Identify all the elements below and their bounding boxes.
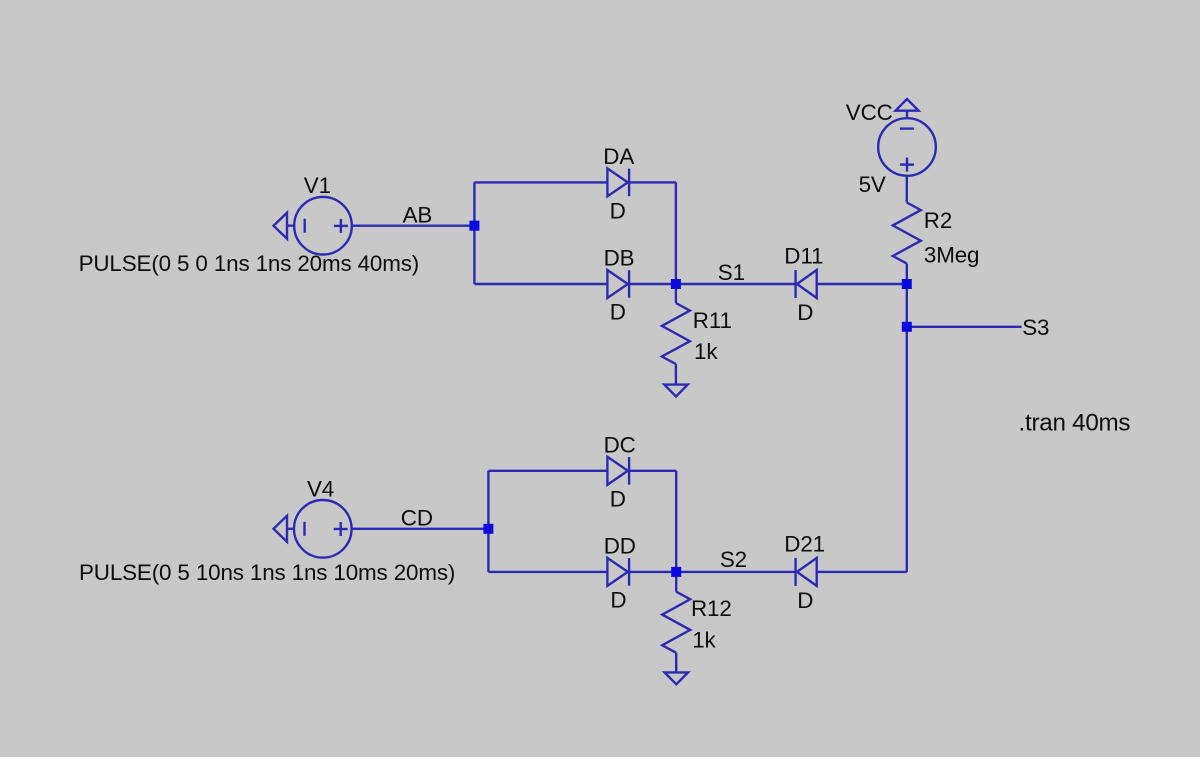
node S1 junction xyxy=(671,279,681,289)
node S2 junction xyxy=(671,567,681,577)
voltage source V1 xyxy=(294,197,352,255)
ground at R11 xyxy=(664,385,687,397)
ground at VCC xyxy=(896,99,919,118)
wire R11 top lead xyxy=(675,284,677,303)
wire VCC to R2 xyxy=(906,176,908,203)
svg-text:DD: DD xyxy=(604,534,636,559)
svg-text:S3: S3 xyxy=(1022,315,1049,340)
wire DC row left xyxy=(488,470,607,472)
wire DA row left xyxy=(474,181,607,183)
svg-text:D: D xyxy=(797,300,813,325)
wire S2 xyxy=(676,571,795,573)
wire DD row right xyxy=(629,571,676,573)
wire vertical left top xyxy=(473,182,475,284)
wire D21 to node xyxy=(817,571,907,573)
wire DA row right xyxy=(629,181,676,183)
wire DD row left xyxy=(488,571,607,573)
diode DB xyxy=(607,270,629,298)
wire R2 to node xyxy=(906,264,908,284)
wire CD xyxy=(352,528,489,530)
svg-text:S2: S2 xyxy=(720,547,747,572)
node S3 junction xyxy=(902,322,912,332)
wire DB row right xyxy=(629,283,676,285)
svg-text:R12: R12 xyxy=(691,596,732,621)
svg-text:DC: DC xyxy=(604,433,636,458)
svg-text:.tran 40ms: .tran 40ms xyxy=(1019,409,1131,436)
svg-text:AB: AB xyxy=(403,203,433,228)
node AB junction xyxy=(469,221,479,231)
svg-text:5V: 5V xyxy=(859,172,886,197)
wire AB xyxy=(352,224,474,226)
diode D21 xyxy=(796,558,817,586)
svg-text:D11: D11 xyxy=(784,244,823,269)
voltage source V4 xyxy=(294,500,352,558)
wire vertical right bottom xyxy=(675,471,677,572)
svg-text:S1: S1 xyxy=(718,260,745,285)
wire R12 bottom lead xyxy=(675,653,677,672)
svg-text:1k: 1k xyxy=(692,627,716,652)
svg-text:PULSE(0 5 10ns 1ns 1ns 10ms 20: PULSE(0 5 10ns 1ns 1ns 10ms 20ms) xyxy=(79,560,455,585)
svg-text:CD: CD xyxy=(401,506,433,531)
svg-text:PULSE(0 5 0 1ns 1ns 20ms 40ms): PULSE(0 5 0 1ns 1ns 20ms 40ms) xyxy=(79,251,420,276)
wire vertical left bottom xyxy=(487,471,489,572)
wire vertical right top xyxy=(675,182,677,284)
resistor R2 xyxy=(893,203,921,264)
node CD junction xyxy=(483,524,493,534)
svg-text:R11: R11 xyxy=(693,308,732,333)
svg-text:R2: R2 xyxy=(924,208,952,233)
node D11/R2 junction xyxy=(902,279,912,289)
svg-text:D: D xyxy=(610,587,626,612)
wire R11 bottom lead xyxy=(675,364,677,384)
svg-text:1k: 1k xyxy=(694,339,718,364)
svg-text:V1: V1 xyxy=(304,173,331,198)
resistor R12 xyxy=(662,592,690,653)
voltage source VCC xyxy=(878,118,936,176)
resistor R11 xyxy=(662,303,690,364)
svg-text:D: D xyxy=(797,588,813,613)
wire DC row right xyxy=(629,470,676,472)
diode DC xyxy=(607,457,629,485)
svg-text:D: D xyxy=(610,300,626,325)
wire D11 to node xyxy=(817,283,907,285)
ground at V4 xyxy=(274,516,295,542)
svg-text:D21: D21 xyxy=(784,532,825,557)
diode D11 xyxy=(796,270,817,298)
svg-text:V4: V4 xyxy=(307,476,334,501)
svg-text:DA: DA xyxy=(603,144,634,169)
diode DD xyxy=(607,558,629,586)
svg-text:VCC: VCC xyxy=(846,100,893,125)
wire R12 top lead xyxy=(675,572,677,592)
svg-text:D: D xyxy=(610,486,626,511)
wire DB row left xyxy=(474,283,607,285)
ground at V1 xyxy=(274,213,295,239)
wire S1 xyxy=(676,283,796,285)
ground at R12 xyxy=(665,672,688,684)
svg-text:DB: DB xyxy=(604,246,635,271)
diode DA xyxy=(607,168,629,196)
wire vertical S3 xyxy=(906,284,908,572)
wire S3 xyxy=(907,326,1022,328)
svg-text:D: D xyxy=(610,198,626,223)
svg-text:3Meg: 3Meg xyxy=(924,243,979,268)
